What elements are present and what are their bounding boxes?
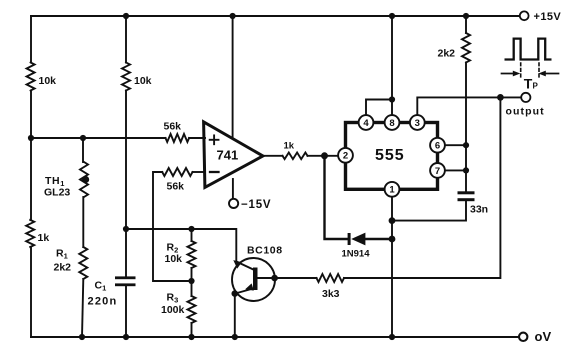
wire pin7 stub	[445, 169, 466, 171]
node junction R2/R3/feedback	[188, 278, 194, 284]
wire TH1 branch top	[82, 138, 84, 162]
wire 3k3 to transistor base	[275, 277, 317, 279]
node junction divider row / R2 top	[188, 226, 194, 232]
resistor R3 100k zigzag	[188, 296, 196, 323]
transistor base bar	[253, 268, 258, 291]
resistor 3k3 zigzag	[317, 274, 345, 282]
resistor 1k (left rail)	[26, 220, 34, 247]
wire 33n bottom to pin1 line	[392, 201, 466, 220]
op-amp U1 741 triangle	[204, 122, 263, 187]
waveform right arrow	[538, 71, 558, 77]
wire diode to pin1 line	[365, 238, 392, 240]
svg-text:555: 555	[375, 147, 405, 164]
svg-text:P: P	[533, 82, 539, 91]
wire 2k2 down to pins 6/7 and 33n	[465, 63, 467, 192]
wire divider row to transistor collector	[126, 229, 236, 262]
terminal output	[521, 93, 530, 102]
wire pin4 to pin8 tie	[366, 100, 392, 116]
pin 7 of 555	[430, 163, 445, 178]
svg-text:1: 1	[389, 185, 395, 196]
svg-text:8: 8	[389, 118, 394, 129]
node junction pin2 wire / diode branch	[321, 152, 328, 159]
transistor emitter lead diagonal	[235, 289, 253, 294]
wire 56k lower to op-amp - input	[193, 171, 206, 173]
node junction emitter / vertical lead	[232, 290, 239, 297]
wire pin6 stub	[445, 144, 466, 146]
wire TH1 to R1	[82, 197, 84, 247]
resistor 56k (lower)	[162, 168, 192, 176]
svg-text:2k2: 2k2	[54, 262, 72, 274]
wire 1k to 555 pin 2	[308, 155, 339, 157]
transistor Q1 BC108 body circle	[232, 258, 275, 301]
transistor collector lead diagonal	[236, 262, 253, 270]
thermistor TH1 bead dot	[82, 176, 89, 183]
capacitor C1 plates	[115, 276, 136, 279]
resistor R2 10k zigzag	[191, 229, 193, 241]
waveform left arrow	[502, 71, 521, 77]
wire R3 bottom to rail	[191, 323, 193, 337]
wire op-amp V+ supply	[232, 16, 234, 137]
node junction 33n return / pin1 line	[389, 217, 396, 224]
wire noninverting input row	[31, 137, 166, 139]
node junction C1 / bottom rail	[123, 334, 129, 340]
svg-text:7: 7	[435, 166, 440, 177]
op-amp plus input sign	[210, 135, 219, 144]
svg-text:1N914: 1N914	[342, 249, 371, 260]
node junction top rail / 2k2	[463, 13, 469, 19]
svg-text:741: 741	[217, 148, 239, 163]
svg-text:oV: oV	[535, 329, 552, 344]
terminal -15V	[229, 199, 238, 208]
wire R1 bottom to rail	[82, 279, 83, 337]
node junction R3 / bottom rail	[188, 334, 194, 340]
svg-text:−15V: −15V	[241, 199, 271, 211]
transistor base lead	[258, 277, 276, 279]
svg-text:220n: 220n	[88, 296, 118, 308]
pin 3 of 555	[410, 115, 425, 130]
terminal +15V	[520, 11, 529, 20]
wire left rail middle	[30, 91, 32, 220]
svg-text:1k: 1k	[38, 232, 50, 244]
svg-text:+15V: +15V	[534, 11, 562, 23]
pin 4 of 555	[359, 115, 374, 130]
svg-text:BC108: BC108	[247, 245, 283, 257]
node junction top rail / 555 pin8 line	[389, 13, 395, 19]
transistor collector arrow mark	[233, 260, 242, 269]
node junction divider row / C1 top	[123, 226, 129, 232]
wire emitter to bottom rail	[234, 294, 236, 337]
waveform tick marks dashed	[520, 63, 522, 79]
resistor 10k (left)	[27, 63, 35, 91]
svg-text:56k: 56k	[167, 181, 185, 193]
resistor 10k (second)	[122, 63, 130, 91]
wire pin3 to output terminal	[417, 97, 521, 115]
wire C1 bottom to rail	[125, 286, 127, 337]
IC U2 555 body	[346, 123, 438, 190]
wire left rail lower	[30, 247, 32, 337]
svg-text:GL23: GL23	[44, 187, 70, 199]
diode D1 1N914 triangle	[351, 233, 365, 246]
pin 1 of 555	[385, 182, 400, 197]
wire bottom 0V rail	[31, 336, 519, 338]
wire 10k#2 down to divider node	[125, 91, 127, 277]
svg-text:output: output	[506, 106, 545, 118]
capacitor 33n plates	[458, 191, 475, 194]
diode D1 1N914 cathode bar	[348, 233, 351, 245]
wire pin8 to top rail	[391, 16, 393, 115]
terminal 0V	[519, 333, 527, 341]
svg-text:100k: 100k	[161, 304, 185, 316]
wire pin1 to bottom rail	[391, 197, 393, 337]
svg-text:10k: 10k	[134, 75, 152, 87]
svg-text:33n: 33n	[470, 204, 488, 216]
thermistor TH1 zigzag	[80, 162, 88, 197]
svg-text:3k3: 3k3	[322, 288, 340, 300]
wire left rail vertical	[30, 16, 32, 63]
wire top +15V rail	[31, 15, 520, 17]
wire output node down to 3k3 row	[344, 97, 500, 278]
node junction output / base drive branch	[497, 94, 504, 101]
pin 2 of 555	[338, 148, 353, 163]
waveform output pulse train	[505, 39, 552, 60]
wire op-amp V- to -15V	[232, 179, 234, 199]
resistor R1 2k2 zigzag	[79, 247, 87, 279]
wire op-amp output	[263, 155, 283, 157]
svg-text:2: 2	[343, 151, 348, 162]
wire feedback from inverting input	[153, 172, 192, 281]
node junction top rail / 10k#2	[123, 13, 129, 19]
svg-text:56k: 56k	[164, 121, 182, 133]
node junction pin1 line / bottom rail	[389, 334, 395, 340]
svg-text:4: 4	[363, 118, 369, 129]
node junction diode / pin1 line	[389, 236, 396, 243]
node junction emitter / bottom rail	[232, 334, 238, 340]
pin 8 of 555	[385, 115, 400, 130]
resistor 1k (op-amp output)	[283, 153, 308, 160]
transistor emitter arrow	[245, 283, 254, 290]
svg-text:T: T	[524, 76, 533, 92]
resistor 2k2 from +15V	[465, 16, 467, 33]
node junction pin6 / 2k2 line	[463, 142, 469, 148]
svg-text:2k2: 2k2	[438, 48, 456, 60]
svg-text:10k: 10k	[165, 253, 183, 265]
wire diode branch vertical	[325, 156, 349, 239]
node junction top rail / op-amp supply	[230, 13, 236, 19]
node junction input row / TH1	[80, 135, 86, 141]
op-amp minus input sign	[210, 171, 219, 173]
svg-text:6: 6	[435, 141, 440, 152]
resistor 56k (upper)	[166, 134, 190, 142]
wire second vertical from top rail	[125, 16, 127, 63]
wire R2 to R3 node	[191, 268, 193, 296]
wire 56k to op-amp + input	[189, 137, 205, 139]
node junction left rail / input row	[28, 135, 34, 141]
node junction pin7 / 2k2 line	[463, 167, 469, 173]
node junction pin4/pin8 tie	[389, 96, 395, 102]
svg-text:10k: 10k	[39, 75, 57, 87]
node junction base lead / circle edge	[271, 275, 278, 282]
node junction R1 / bottom rail	[79, 334, 85, 340]
svg-text:1k: 1k	[284, 141, 295, 152]
pin 6 of 555	[430, 138, 445, 153]
svg-text:3: 3	[415, 118, 420, 129]
